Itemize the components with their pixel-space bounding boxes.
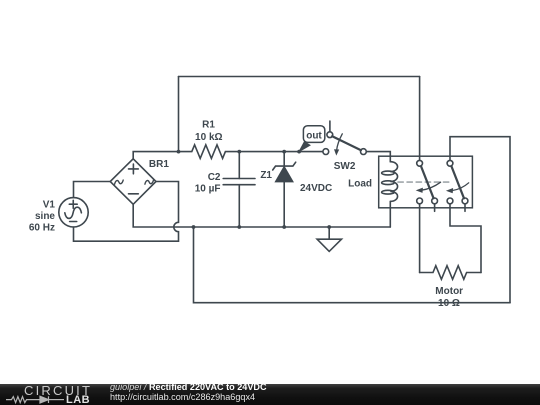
resistor R1: [179, 119, 240, 158]
junction Z1 bottom: [282, 225, 286, 229]
wire node A up to top rail: [178, 77, 180, 152]
motor resistor Motor 10 ohm: [420, 266, 481, 309]
svg-text:Z1: Z1: [260, 170, 272, 181]
svg-text:BR1: BR1: [149, 159, 169, 170]
svg-text:R1: R1: [202, 119, 215, 130]
capacitor C2: [195, 152, 255, 227]
junction out node: [297, 150, 301, 154]
dashed actuation line: [398, 181, 450, 183]
node out flag: [299, 126, 325, 152]
wire coil bottom to ground rail: [389, 201, 391, 227]
wire V1 top to BR1 left vertex: [74, 182, 111, 198]
svg-text:out: out: [306, 131, 322, 142]
relay coil Load: [348, 162, 397, 202]
junction Z1 top: [282, 150, 286, 154]
wire contact K1a NC to motor left: [419, 204, 421, 273]
svg-text:Load: Load: [348, 178, 372, 189]
relay box: [379, 156, 473, 208]
wire SW2 common to relay coil: [366, 152, 390, 162]
switch SW2: [323, 121, 366, 172]
wire top rail: [179, 76, 420, 78]
bridge rectifier BR1: [110, 159, 169, 205]
wire bottom rail to ground tap: [194, 227, 511, 303]
voltage source V1: [29, 198, 88, 234]
junction node A: [177, 150, 181, 154]
wire contact K1b top to right rail: [450, 137, 510, 303]
svg-text:10 kΩ: 10 kΩ: [195, 132, 222, 143]
relay contact K1b: [446, 160, 469, 211]
svg-text:C2: C2: [208, 172, 221, 183]
junction C2 bottom: [237, 225, 241, 229]
relay contact K1a: [416, 160, 441, 211]
svg-text:10 Ω: 10 Ω: [438, 298, 460, 309]
CircuitLab logo: [24, 383, 92, 398]
svg-text:sine: sine: [35, 211, 55, 222]
footer bar: [0, 384, 540, 405]
junction ground symbol: [327, 225, 331, 229]
wire top rail down to relay contact K1a: [419, 77, 421, 161]
svg-text:10 µF: 10 µF: [195, 183, 221, 194]
zener diode Z1: [260, 152, 332, 227]
svg-text:Motor: Motor: [435, 286, 463, 297]
svg-text:V1: V1: [43, 200, 56, 211]
svg-text:SW2: SW2: [334, 161, 356, 172]
footer url text: [110, 392, 255, 402]
wire R1 to SW2 throw: [239, 151, 322, 153]
ground rail: [133, 204, 390, 227]
wire V1 bottom to BR1 right vertex (hop over ground rail): [74, 182, 179, 242]
junction motor tap: [192, 225, 196, 229]
svg-text:24VDC: 24VDC: [300, 183, 332, 194]
wire BR1 + to node A: [133, 152, 178, 159]
footer title text: [110, 382, 267, 392]
junction C2 top: [237, 150, 241, 154]
wire contact K1b NC to motor right: [450, 204, 481, 273]
svg-text:60 Hz: 60 Hz: [29, 222, 55, 233]
ground symbol: [317, 227, 341, 251]
